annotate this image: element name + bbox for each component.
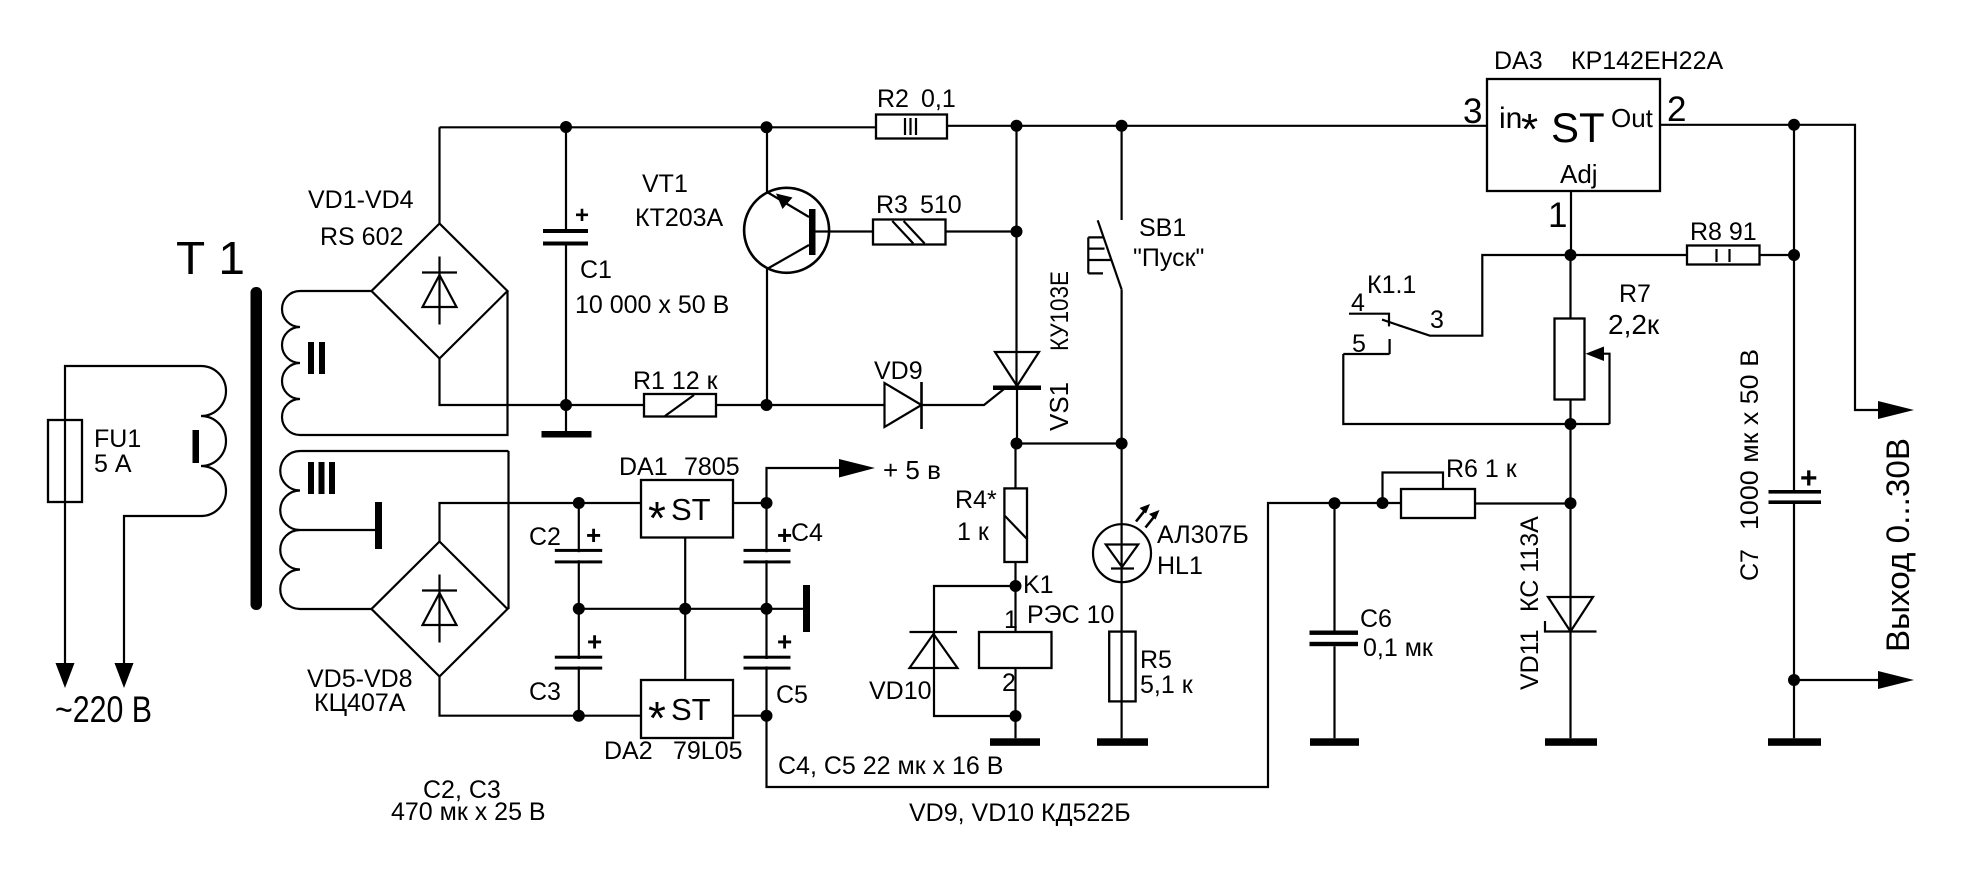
- svg-text:+: +: [1800, 462, 1818, 495]
- svg-text:КС 113А: КС 113А: [1516, 516, 1544, 612]
- svg-text:+ 5 в: + 5 в: [883, 455, 941, 485]
- svg-text:79L05: 79L05: [673, 737, 743, 765]
- svg-text:ST: ST: [671, 492, 711, 527]
- svg-text:VD10: VD10: [869, 677, 932, 705]
- svg-text:R2: R2: [877, 85, 909, 113]
- svg-text:R3: R3: [876, 191, 908, 219]
- svg-text:1: 1: [1548, 196, 1567, 235]
- svg-text:5: 5: [1352, 330, 1366, 358]
- svg-text:2: 2: [1667, 90, 1686, 129]
- svg-text:DA1: DA1: [619, 453, 668, 481]
- svg-text:K1: K1: [1023, 571, 1054, 599]
- svg-text:VD11: VD11: [1516, 629, 1544, 690]
- svg-text:~220 В: ~220 В: [55, 689, 152, 730]
- svg-text:VD1-VD4: VD1-VD4: [308, 186, 414, 214]
- svg-text:7805: 7805: [684, 453, 740, 481]
- svg-text:АЛ307Б: АЛ307Б: [1157, 521, 1249, 549]
- svg-text:0,1 мк: 0,1 мк: [1363, 634, 1434, 662]
- svg-text:КР142ЕН22А: КР142ЕН22А: [1571, 47, 1723, 75]
- svg-text:Adj: Adj: [1560, 159, 1598, 189]
- svg-text:КЦ407А: КЦ407А: [314, 689, 406, 717]
- svg-text:*: *: [648, 492, 666, 544]
- svg-text:5,1 к: 5,1 к: [1140, 671, 1194, 699]
- svg-text:R4*: R4*: [955, 486, 997, 514]
- svg-text:Т 1: Т 1: [176, 232, 245, 284]
- svg-text:+: +: [777, 520, 792, 550]
- svg-text:C7: C7: [1736, 549, 1764, 581]
- svg-text:0,1: 0,1: [921, 85, 956, 113]
- svg-text:1 к: 1 к: [957, 518, 990, 546]
- svg-text:3: 3: [1463, 92, 1482, 131]
- svg-text:ST: ST: [1551, 104, 1605, 151]
- svg-text:*: *: [1521, 105, 1538, 154]
- svg-text:DA3: DA3: [1494, 47, 1543, 75]
- svg-text:RS 602: RS 602: [320, 223, 403, 251]
- svg-text:РЭС 10: РЭС 10: [1027, 601, 1114, 629]
- svg-text:"Пуск": "Пуск": [1133, 244, 1204, 272]
- svg-text:4: 4: [1351, 289, 1365, 317]
- svg-text:Выход 0...30В: Выход 0...30В: [1880, 438, 1916, 652]
- svg-text:C1: C1: [580, 256, 612, 284]
- svg-text:510: 510: [920, 191, 962, 219]
- svg-text:3: 3: [1430, 306, 1444, 334]
- svg-text:+: +: [777, 627, 792, 657]
- svg-text:C5: C5: [776, 681, 808, 709]
- svg-text:in: in: [1499, 102, 1522, 135]
- svg-text:HL1: HL1: [1157, 552, 1203, 580]
- svg-text:*: *: [648, 692, 666, 744]
- svg-text:C2: C2: [529, 523, 561, 551]
- svg-text:R6 1 к: R6 1 к: [1446, 455, 1518, 483]
- svg-text:1000 мк x 50 В: 1000 мк x 50 В: [1736, 349, 1764, 530]
- svg-text:КУ103Е: КУ103Е: [1046, 271, 1074, 351]
- svg-text:C4: C4: [791, 519, 823, 547]
- svg-text:R1 12 к: R1 12 к: [633, 367, 719, 395]
- svg-text:R7: R7: [1619, 280, 1651, 308]
- svg-text:+: +: [575, 202, 589, 229]
- svg-text:VD9: VD9: [874, 357, 923, 385]
- svg-text:R5: R5: [1140, 646, 1172, 674]
- svg-text:ST: ST: [671, 692, 711, 727]
- svg-text:C4, C5 22 мк x 16 В: C4, C5 22 мк x 16 В: [778, 752, 1003, 780]
- svg-text:+: +: [586, 520, 601, 550]
- svg-text:Out: Out: [1611, 103, 1654, 133]
- svg-text:DA2: DA2: [604, 737, 653, 765]
- svg-text:VT1: VT1: [642, 170, 688, 198]
- svg-text:1: 1: [1004, 606, 1018, 634]
- svg-text:2: 2: [1002, 669, 1016, 697]
- svg-text:C3: C3: [529, 678, 561, 706]
- svg-text:R8 91: R8 91: [1690, 218, 1757, 246]
- svg-text:470 мк x 25 В: 470 мк x 25 В: [391, 798, 546, 826]
- svg-text:5 А: 5 А: [94, 450, 132, 478]
- svg-text:К1.1: К1.1: [1367, 271, 1416, 299]
- svg-text:VS1: VS1: [1044, 382, 1074, 431]
- svg-text:FU1: FU1: [94, 425, 141, 453]
- svg-text:+: +: [587, 627, 602, 657]
- svg-text:SB1: SB1: [1139, 214, 1186, 242]
- svg-text:C6: C6: [1360, 605, 1392, 633]
- svg-text:10 000 x 50 В: 10 000 x 50 В: [575, 291, 729, 319]
- svg-text:КТ203А: КТ203А: [635, 204, 724, 232]
- svg-text:VD9, VD10 КД522Б: VD9, VD10 КД522Б: [909, 799, 1131, 827]
- svg-text:2,2к: 2,2к: [1608, 309, 1660, 340]
